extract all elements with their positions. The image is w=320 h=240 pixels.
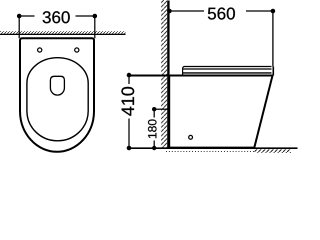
dim 180 dot top	[152, 107, 156, 111]
floor dotted hatch under body	[166, 151, 254, 153]
dim 180 line top segment	[153, 109, 155, 117]
dim 360 line right segment	[76, 15, 95, 17]
seat left edge	[183, 67, 185, 75]
dim 410 dot top	[127, 73, 132, 78]
wall hatch ticks (top view wall)	[0, 31, 126, 34]
dim 560 extension line right	[272, 11, 274, 66]
dim 560 dot right	[271, 9, 276, 14]
dim 360 extension line right	[94, 16, 96, 38]
dim 560 line right segment	[246, 10, 273, 12]
dim 410 dot bottom	[127, 146, 132, 151]
bowl rim (top view)	[27, 58, 88, 141]
dim 560 line left segment	[169, 10, 204, 12]
dim 360 line left segment	[19, 15, 34, 17]
dim 180 extension line top	[154, 108, 168, 110]
dim 360 dot left	[17, 14, 22, 19]
dim 560 label	[208, 8, 235, 20]
wall hatch ticks (side view wall)	[161, 0, 167, 148]
seat right edge	[272, 67, 274, 76]
wall line (top view)	[0, 33, 126, 35]
dim 560 dot left	[167, 9, 172, 14]
dim 180 dot bottom	[152, 146, 156, 150]
wall line (side view)	[167, 1, 169, 149]
dim 180 line bottom segment	[153, 141, 155, 149]
toilet body outline (top view)	[20, 38, 94, 152]
dim 360 extension line left	[18, 16, 20, 38]
hinge hole left	[38, 48, 42, 52]
floor line	[128, 147, 298, 149]
dim 410 line top segment	[128, 75, 130, 84]
dim 410 line bottom segment	[128, 119, 130, 149]
floor hatch ticks (right of foot)	[255, 149, 292, 152]
toilet body (side view): front slanted edge	[254, 76, 272, 148]
dim 360 label	[43, 11, 70, 23]
dim 410 label (rotated)	[121, 87, 134, 116]
flush hole (top view)	[50, 76, 64, 95]
drain hole (side view)	[189, 135, 193, 139]
toilet bottom edge (side view)	[169, 147, 255, 149]
pan rim top line (side view)	[129, 75, 273, 77]
hinge hole right	[75, 48, 79, 52]
seat middle line	[183, 68, 272, 70]
seat top line	[185, 66, 272, 68]
toilet back edge (side view)	[168, 76, 170, 148]
dim 180 label (rotated)	[148, 119, 157, 138]
seat lower line	[183, 72, 272, 74]
dim 360 dot right	[93, 14, 98, 19]
